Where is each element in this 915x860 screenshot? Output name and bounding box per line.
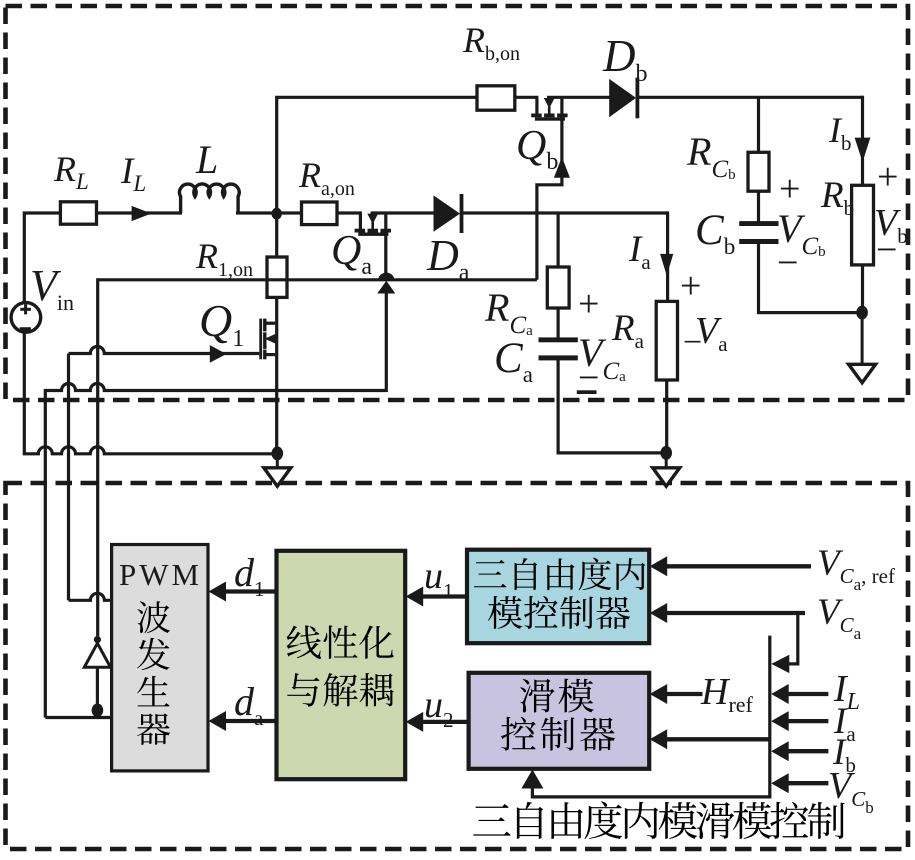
arrow up into gate bus <box>377 281 395 294</box>
ground symbol b <box>861 313 864 365</box>
svg-text:−: − <box>876 229 897 271</box>
text 控制器 <box>501 717 536 751</box>
wire Cb to ground node <box>759 244 863 313</box>
signal IL arrow <box>787 692 829 696</box>
wire Ca to ground node <box>558 360 666 453</box>
current arrow Ia <box>660 254 673 276</box>
wire complementary gate line <box>96 278 99 636</box>
text 波 <box>137 601 170 633</box>
svg-text:+: + <box>578 283 599 325</box>
svg-text:−: − <box>683 324 702 361</box>
arrow on Qb source <box>554 157 570 178</box>
node: output b ground <box>856 306 868 320</box>
wire gate bus <box>98 278 537 281</box>
wire RL to L <box>97 211 183 214</box>
wire Ra,on to Qa <box>337 211 362 214</box>
wire Db to output b corner <box>636 96 863 99</box>
wire RCa to Ca <box>556 308 559 338</box>
wire RCb to Cb <box>757 191 760 222</box>
diode Db <box>609 79 636 117</box>
signal bus to sliding controller arrow <box>665 737 770 741</box>
resistor RCa <box>547 267 569 308</box>
block: 3-DOF internal model controller <box>467 550 649 644</box>
wire L to node <box>236 211 278 214</box>
svg-text:L: L <box>195 137 218 182</box>
wire RCa branch <box>556 213 559 268</box>
svg-text:+: + <box>877 156 898 198</box>
wire Ra to ground node <box>665 380 668 453</box>
block: PWM wave generator <box>112 545 208 771</box>
resistor Rb <box>852 185 874 265</box>
transistor Qa <box>359 213 362 230</box>
extra bar below VCa minus <box>577 390 597 394</box>
transistor Q1 <box>265 322 277 325</box>
wire da feedback line with hops <box>45 384 386 718</box>
signal Href arrow <box>665 692 702 696</box>
signal u2 arrow <box>421 720 469 724</box>
svg-text:+: + <box>779 168 800 210</box>
wire RCb branch <box>757 97 760 153</box>
wire from da line up to bus arrow <box>385 290 388 392</box>
svg-text:PWM: PWM <box>119 557 202 592</box>
svg-text:−: − <box>777 242 798 284</box>
text 生 <box>137 676 169 706</box>
svg-text:+: + <box>680 265 701 307</box>
voltage source Vin <box>11 303 41 333</box>
text 与解耦 <box>287 673 319 707</box>
signal Ib arrow <box>787 749 829 753</box>
signal d1 arrow <box>224 589 278 593</box>
resistor Ra,on <box>302 202 338 225</box>
signal Ia arrow <box>787 719 829 723</box>
wire Rb to ground node <box>861 265 864 313</box>
wire Vin bottom ground return with hops <box>24 332 277 454</box>
node: main ground <box>272 446 284 460</box>
wire output b down <box>861 96 864 187</box>
text 线性化 <box>287 625 321 658</box>
dashed border: control box <box>6 483 909 849</box>
current arrow Ib <box>855 138 871 162</box>
text 模控制器 <box>488 596 522 629</box>
resistor Ra <box>656 301 677 380</box>
inductor L <box>180 184 240 213</box>
wire Qa to Da <box>371 211 435 214</box>
wire da to PWM <box>45 716 113 719</box>
ground symbol main <box>276 453 279 468</box>
transistor Qb <box>535 97 538 115</box>
block: sliding mode controller <box>469 673 650 769</box>
text 滑模 <box>520 679 555 713</box>
node: da junction <box>92 704 104 718</box>
node: inductor output junction <box>272 208 282 220</box>
wire Q1 gate drive <box>69 347 260 354</box>
wire node down to R1,on <box>275 213 278 258</box>
capacitor Ca <box>539 337 578 342</box>
wire node up and to Rb,on <box>277 97 477 215</box>
wire d1 line vertical <box>67 354 70 601</box>
inverter bubble <box>94 636 101 643</box>
capacitor Cb <box>739 221 778 226</box>
wire Qb source path down-left to gate bus <box>537 97 562 279</box>
wire Qb to Db <box>547 96 610 99</box>
signal VCb arrow <box>787 781 829 785</box>
block: linearization and decoupling <box>277 551 406 779</box>
wire Vin top to RL <box>24 213 60 303</box>
text 器 <box>137 713 170 745</box>
dashed border: power stage box <box>6 6 909 400</box>
signal VCa arrow <box>665 611 805 615</box>
junction dome at Qa source on bus <box>378 273 395 281</box>
wire node to Ra,on <box>277 211 302 214</box>
arrow into Q1 gate <box>210 345 227 363</box>
wire R1,on to Q1 drain <box>275 297 278 455</box>
signal VCa,ref arrow <box>665 564 811 568</box>
arrow up into sliding controller <box>521 770 543 789</box>
diode Da <box>434 195 461 231</box>
resistor R1,on <box>267 257 287 297</box>
node: output a ground <box>660 446 672 460</box>
wire d1 to PWM with hop <box>69 593 114 600</box>
inverter triangle <box>84 643 110 667</box>
resistor RCb <box>748 152 769 191</box>
wire Da to output a corner <box>460 211 668 214</box>
resistor RL <box>60 202 96 224</box>
text 三自由度内 <box>474 560 506 587</box>
resistor Rb,on <box>477 86 515 110</box>
text 发 <box>137 638 170 670</box>
current arrow IL <box>132 206 152 221</box>
wire output a down <box>666 211 669 303</box>
caption 三自由度内模滑模控制 <box>473 804 511 836</box>
signal da arrow <box>224 719 278 723</box>
wire feedback bus <box>532 636 769 797</box>
wire Rb,on to Qb <box>515 96 539 99</box>
wire Qa source down to gate bus <box>384 213 387 274</box>
signal u1 arrow <box>421 594 468 598</box>
ground symbol a <box>665 453 668 468</box>
wire VCa branch down to bus <box>789 613 798 664</box>
